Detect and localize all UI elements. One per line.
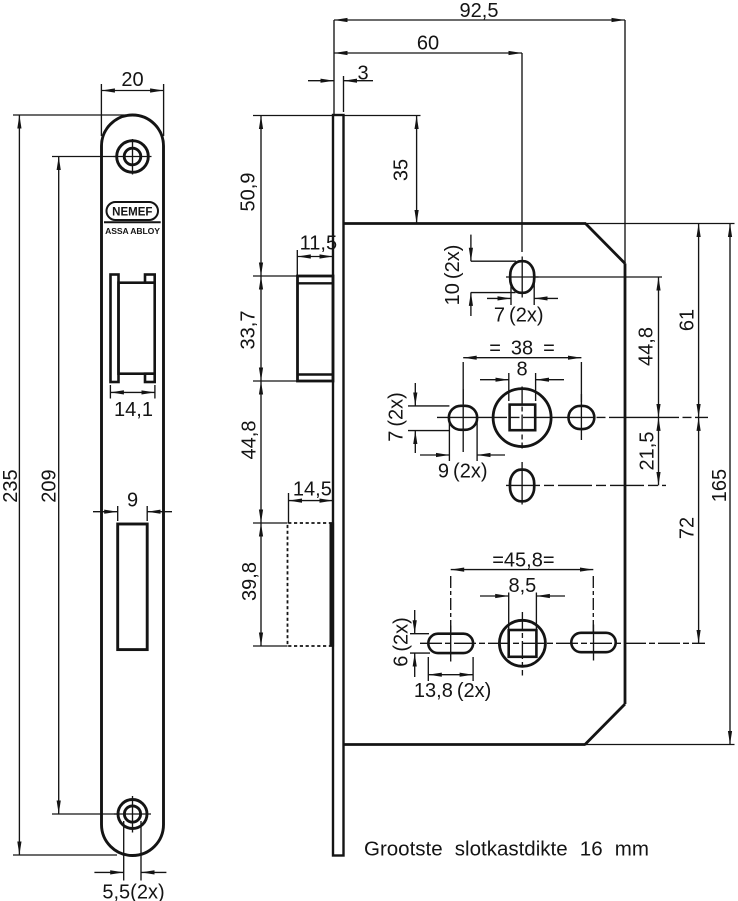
- svg-text:3: 3: [357, 63, 368, 85]
- dimension 20 line: [101, 90, 163, 92]
- svg-text:8: 8: [516, 359, 527, 381]
- right slot crosshair vertical: [593, 625, 595, 661]
- svg-text:20: 20: [121, 69, 143, 91]
- label 11,5: [300, 233, 337, 255]
- dimension 14,5 extension line: [288, 493, 290, 523]
- svg-text:14,5: 14,5: [293, 479, 332, 501]
- label 35: [391, 159, 413, 181]
- left chain extension latch bottom: [253, 380, 298, 382]
- top oval crosshair: [506, 257, 539, 298]
- cylinder square: [509, 630, 537, 657]
- dimension 92,5 extension right: [624, 20, 626, 264]
- label 7 (2x) top: [494, 305, 544, 327]
- bottom oval hole: [510, 470, 534, 502]
- left chain extension strip top: [253, 115, 333, 117]
- svg-text:10 (2x): 10 (2x): [442, 245, 464, 306]
- dimension 13,8 line: [428, 674, 473, 676]
- dimension 14,5 line: [289, 500, 334, 502]
- label 165: [709, 469, 731, 502]
- label 72: [677, 517, 699, 539]
- latch cutout bottom-right notch: [145, 374, 155, 382]
- NEMEF logo oval: [107, 202, 159, 220]
- deadbolt face thick edge: [329, 523, 334, 647]
- dimension 8,5 extension lines: [509, 593, 537, 630]
- dimension 38 extension lines: [463, 362, 581, 404]
- dimension 8 arrows: [480, 379, 564, 381]
- svg-text:235: 235: [0, 469, 22, 502]
- dimension 13,8 extension lines: [428, 657, 473, 681]
- label 39,8: [239, 562, 261, 601]
- latch bolt side view box: [298, 276, 334, 381]
- latch cutout main rect: [119, 283, 155, 374]
- dimension 35 line: [416, 116, 418, 224]
- spindle square: [510, 405, 536, 431]
- dimension 33,7 line: [260, 276, 262, 381]
- label 61: [677, 309, 699, 331]
- latch bolt side inner lines: [298, 283, 334, 374]
- left oval crosshair vertical: [462, 389, 464, 452]
- body right edge: [624, 264, 627, 705]
- svg-text:33,7: 33,7: [238, 311, 260, 350]
- svg-text:7 (2x): 7 (2x): [494, 305, 544, 327]
- svg-text:209: 209: [39, 469, 61, 502]
- svg-text:7 (2x): 7 (2x): [386, 392, 408, 442]
- dimension 10 arrows: [470, 235, 472, 316]
- label 92,5: [460, 0, 499, 22]
- dimension 3 extension tick: [343, 76, 345, 112]
- right slot hole: [571, 633, 615, 652]
- dimension 209 line: [58, 157, 60, 815]
- hole center extension top: [52, 156, 117, 158]
- svg-text:61: 61: [677, 309, 699, 331]
- plate bottom extension line: [13, 854, 117, 856]
- deadbolt side view dashed box: [288, 523, 333, 646]
- svg-text:11,5: 11,5: [300, 233, 337, 255]
- label 8,5: [508, 575, 536, 597]
- cylinder circle: [499, 620, 545, 666]
- dimension 14,1 extension ticks: [110, 385, 154, 399]
- logo underline: [104, 221, 161, 223]
- label 8: [516, 359, 527, 381]
- hole center extension bottom: [52, 813, 118, 815]
- svg-text:9: 9: [127, 490, 138, 512]
- svg-text:60: 60: [417, 33, 439, 55]
- bottom screw hole inner: [124, 806, 140, 822]
- left slot hole: [428, 634, 473, 653]
- spindle row centerline: [437, 416, 708, 418]
- faceplate edge strip side view: [333, 115, 344, 856]
- top edge extension line right: [586, 223, 735, 225]
- label 44,8 left: [239, 421, 261, 460]
- spindle crosshair vertical: [521, 387, 523, 449]
- top oval hole: [510, 261, 534, 293]
- dimension 14,1 line: [110, 391, 154, 393]
- dimension 7 top arrows: [487, 297, 558, 299]
- svg-text:Grootste slotkastdikte 16 mm: Grootste slotkastdikte 16 mm: [364, 838, 649, 861]
- top chamfer: [586, 224, 626, 264]
- faceplate front view outline: [102, 115, 164, 856]
- dimension 44,8 right line: [658, 277, 660, 417]
- right oval hole: [569, 406, 595, 429]
- dimension 72 line: [698, 417, 700, 643]
- label 6 (2x): [391, 617, 413, 667]
- latch cutout left bar: [111, 275, 119, 383]
- dimension 6 extension lines: [410, 634, 430, 653]
- svg-text:165: 165: [709, 469, 731, 502]
- svg-text:NEMEF: NEMEF: [112, 207, 152, 219]
- label 14,5: [293, 479, 332, 501]
- svg-text:50,9: 50,9: [238, 173, 260, 212]
- label 50,9: [238, 173, 260, 212]
- svg-text:39,8: 39,8: [239, 562, 261, 601]
- svg-text:14,1: 14,1: [114, 399, 153, 421]
- lock body top edge: [344, 222, 587, 225]
- label 9 (2x): [438, 461, 488, 483]
- dimension 7 mid arrows: [414, 383, 416, 453]
- dimension 8,5 arrows: [480, 595, 565, 597]
- bottom chamfer: [585, 704, 625, 745]
- label 3: [357, 63, 368, 85]
- top screw hole outer: [117, 141, 149, 173]
- dimension 45,8 extension lines: [451, 576, 594, 633]
- bottom edge extension line right: [586, 744, 735, 746]
- bottom screw hole outer: [118, 800, 147, 829]
- dimension 11,5 line: [297, 256, 333, 258]
- dimension 165 line: [729, 224, 731, 745]
- dimension 7 mid extension lines: [408, 406, 449, 431]
- dimension 20 extension lines: [101, 84, 163, 136]
- svg-text:8,5: 8,5: [508, 575, 536, 597]
- cylinder row centerline: [420, 642, 705, 644]
- left oval hole: [449, 406, 477, 430]
- plate top extension line: [13, 114, 126, 116]
- label 7 (2x) mid: [386, 392, 408, 442]
- label 5,5(2x): [102, 882, 164, 901]
- right oval crosshair vertical: [580, 394, 582, 440]
- dimension 92,5 extension left: [333, 20, 335, 115]
- label 60: [417, 33, 439, 55]
- dimension 60 extension right: [521, 53, 523, 252]
- label 33,7: [238, 311, 260, 350]
- dimension 235 line: [18, 115, 20, 855]
- svg-text:72: 72: [677, 517, 699, 539]
- left slot crosshair vertical: [450, 626, 452, 662]
- spindle follower circle: [493, 389, 551, 447]
- deadbolt cutout: [118, 524, 148, 650]
- label 10 (2x): [442, 245, 464, 306]
- dimension 6 arrows: [414, 610, 416, 677]
- svg-text:ASSA ABLOY: ASSA ABLOY: [105, 226, 160, 236]
- svg-text:21,5: 21,5: [637, 432, 659, 471]
- bottom oval crosshair vertical: [521, 462, 523, 505]
- label 235: [0, 469, 22, 502]
- dimension 5,5 extension lines: [124, 821, 141, 881]
- dimension 61 line: [698, 224, 700, 418]
- svg-text:13,8 (2x): 13,8 (2x): [414, 680, 491, 702]
- label =38=: [489, 338, 555, 360]
- dimension 10 extension lines: [471, 261, 516, 292]
- svg-text:5,5(2x): 5,5(2x): [102, 882, 164, 901]
- dimension 44,8 left line: [260, 381, 262, 523]
- top screw hole inner: [124, 148, 141, 165]
- dimension 11,5 extension line: [296, 250, 298, 276]
- dimension 8 extension lines: [509, 373, 536, 401]
- bottom oval row line: [506, 484, 666, 486]
- label 20: [121, 69, 143, 91]
- svg-text:=45,8=: =45,8=: [492, 550, 554, 572]
- label 21,5: [637, 432, 659, 471]
- dimension 9 arrows: [93, 511, 172, 513]
- ASSA ABLOY text: [105, 226, 160, 236]
- caption Grootste slotkastdikte 16 mm: [364, 838, 649, 861]
- dimension 9 extension ticks: [118, 506, 148, 521]
- left chain extension deadbolt top: [253, 522, 288, 524]
- svg-text:35: 35: [391, 159, 413, 181]
- dimension 50,9 line: [260, 116, 262, 277]
- label 209: [39, 469, 61, 502]
- label 9 plate: [127, 490, 138, 512]
- label =45,8=: [492, 550, 554, 572]
- left chain extension latch top: [253, 275, 298, 277]
- dimension 38 line: [463, 357, 581, 359]
- latch cutout top-right notch: [145, 275, 155, 283]
- svg-text:6 (2x): 6 (2x): [391, 617, 413, 667]
- dimension 3 arrows: [308, 80, 373, 82]
- dimension 9 mid arrows: [420, 454, 505, 456]
- dimension 45,8 line: [451, 569, 594, 571]
- top oval row line to right: [534, 276, 662, 278]
- bottom screw hole crosshair: [114, 796, 151, 833]
- left chain extension deadbolt bottom: [253, 645, 288, 647]
- dimension 92,5 line: [334, 19, 625, 21]
- cylinder crosshair vertical: [521, 612, 523, 676]
- dimension 60 line: [334, 52, 522, 54]
- svg-text:44,8: 44,8: [239, 421, 261, 460]
- dimension 5,5 arrows: [94, 871, 166, 873]
- label 13,8 (2x): [414, 680, 491, 702]
- dimension 9 mid extension lines: [449, 418, 477, 461]
- svg-text:9 (2x): 9 (2x): [438, 461, 488, 483]
- label 14,1: [114, 399, 153, 421]
- svg-text:44,8: 44,8: [636, 327, 658, 366]
- svg-text:92,5: 92,5: [460, 0, 499, 22]
- dimension 7 top extension lines: [511, 282, 534, 305]
- dimension 35 extension line: [344, 115, 421, 117]
- dimension 39,8 line: [260, 523, 262, 646]
- dimension 21,5 line: [658, 417, 660, 485]
- label 44,8 right: [636, 327, 658, 366]
- svg-text:= 38 =: = 38 =: [489, 338, 555, 360]
- top screw hole crosshair: [114, 139, 152, 175]
- lock body bottom edge: [344, 743, 586, 746]
